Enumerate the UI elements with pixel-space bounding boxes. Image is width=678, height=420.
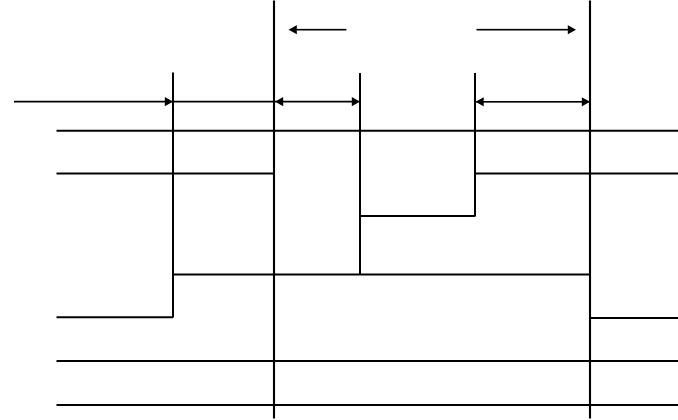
wire V4 : vertical line at x=360 (waveform edge / reference) [359, 73, 361, 275]
wire V1 : left full-height vertical reference line [273, 1, 275, 419]
arrow A4 : double-headed span between V1 and V4 [274, 97, 360, 106]
wire H5b : low-level segment right of V2 [590, 317, 678, 319]
wire V2 : right full-height vertical reference line [589, 1, 591, 419]
wire H2b : second horizontal line, right segment [475, 173, 678, 175]
wire H1 : top long horizontal waveform line [57, 130, 678, 132]
arrow A3 : long leader line from left with right-pointing head at V3, continuing to V1 [14, 97, 274, 106]
arrow A1 : top-left arrow pointing left [289, 25, 347, 34]
wire H3 : middle short horizontal segment between V4 and V5 [360, 215, 475, 217]
wire V3 : vertical line at x=173 (waveform edge / reference) [172, 73, 174, 318]
wire V5 : vertical line at x=475 (waveform edge / reference) [474, 73, 476, 217]
wire H7 : bottom long horizontal line [57, 404, 678, 406]
wire H4 : long middle horizontal segment between V3 and V2 [173, 274, 590, 276]
arrow A2 : top-right arrow pointing right [477, 25, 577, 34]
wire H5a : low-level segment left of V3 [57, 316, 174, 318]
wire H2a : second horizontal line, left segment [57, 173, 275, 175]
wire H6 : lower long horizontal line [57, 360, 678, 362]
arrow A5 : double-headed span between V5 and V2 [476, 97, 591, 106]
